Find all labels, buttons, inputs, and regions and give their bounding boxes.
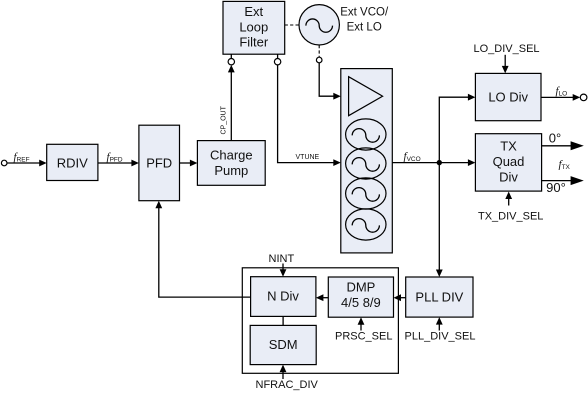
svg-text:DMP: DMP (346, 280, 375, 295)
wire TX output 90deg (542, 180, 571, 182)
wire LO_DIV_SEL down (504, 55, 506, 67)
svg-text:LO Div: LO Div (488, 90, 528, 105)
wire PLL DIV to DMP (401, 297, 406, 299)
wire fVCO to TX Quad Div (392, 162, 468, 164)
stem N Div to SDM (282, 316, 284, 325)
svg-text:TX_DIV_SEL: TX_DIV_SEL (478, 210, 543, 222)
arrowhead NFRAC_DIV into SDM (280, 365, 287, 373)
wire NINT down (282, 264, 284, 271)
terminal circle fLO output (580, 94, 587, 101)
arrowhead into N Div right (316, 294, 324, 301)
arrowhead TX 90deg (571, 176, 584, 185)
svg-text:Div: Div (499, 169, 518, 184)
terminal circle loop filter left pin (228, 59, 234, 65)
svg-text:PRSC_SEL: PRSC_SEL (335, 331, 392, 343)
dashed stem ext vco down (318, 45, 320, 57)
block TX Quad Div (475, 134, 541, 191)
svg-text:Ext VCO/: Ext VCO/ (340, 6, 389, 18)
wire PRSC_SEL up (360, 324, 362, 330)
arrowhead into PLL DIV (436, 270, 443, 278)
wire PFD to Charge Pump (180, 162, 191, 164)
arrowhead LO_DIV_SEL (502, 66, 509, 74)
svg-text:CP_OUT: CP_OUT (221, 105, 228, 134)
svg-text:Loop: Loop (239, 19, 268, 34)
wire TX output 0deg (542, 145, 571, 147)
vco oscillator stage 1 outline and sine (346, 119, 386, 150)
svg-text:Charge: Charge (210, 148, 253, 163)
wire fLO output (541, 96, 573, 98)
arrowhead feedback into PFD (155, 201, 162, 209)
svg-text:Quad: Quad (493, 154, 525, 169)
block PFD (139, 125, 180, 201)
svg-text:RDIV: RDIV (57, 155, 88, 170)
arrowhead into LO Div (468, 94, 476, 101)
svg-text:SDM: SDM (269, 337, 298, 352)
block Ext Loop Filter (223, 1, 285, 54)
wire branch up to LO Div (439, 97, 468, 162)
arrowhead PLL_DIV_SEL into PLL DIV (436, 317, 443, 325)
svg-text:NINT: NINT (269, 253, 295, 265)
arrowhead into DMP right (394, 294, 402, 301)
arrowhead into TX Quad Div (468, 159, 476, 166)
ext vco circle U1 (299, 5, 339, 45)
terminal circle ext vco pin (316, 57, 322, 63)
wire DMP to N Div (323, 297, 328, 299)
svg-text:Ext: Ext (244, 4, 263, 19)
wire feedback N Div to PFD (159, 208, 251, 298)
arrowhead into Charge Pump (190, 160, 198, 167)
wire VTUNE from loop filter right pin (278, 65, 334, 163)
input terminal circle (1, 160, 7, 166)
svg-text:PLL DIV: PLL DIV (415, 290, 463, 305)
outer box fractional divider (242, 268, 398, 374)
wire PLL_DIV_SEL up (438, 324, 440, 330)
svg-text:0°: 0° (549, 130, 561, 145)
svg-text:LO_DIV_SEL: LO_DIV_SEL (474, 43, 540, 55)
wire ext vco into VCO buffer (319, 63, 334, 96)
arrowhead into RDIV (39, 160, 47, 167)
vco oscillator stage 3 outline and sine (346, 178, 386, 209)
vco oscillator stage 4 body (346, 209, 386, 240)
block SDM (250, 325, 316, 364)
svg-text:NFRAC_DIV: NFRAC_DIV (256, 379, 319, 391)
svg-text:PLL_DIV_SEL: PLL_DIV_SEL (405, 331, 476, 343)
svg-text:90°: 90° (546, 180, 566, 195)
wire CP_OUT up to loop filter (230, 72, 232, 141)
wire RDIV to PFD (98, 162, 132, 164)
arrowhead fLO (573, 94, 581, 101)
block PLL DIV (406, 277, 473, 317)
svg-text:TX: TX (500, 138, 517, 153)
svg-text:VTUNE: VTUNE (296, 154, 320, 161)
wire TX_DIV_SEL up (508, 198, 510, 205)
stem loop filter right pin (277, 54, 279, 58)
arrowhead into PFD (131, 160, 139, 167)
arrowhead TX 0deg (571, 141, 584, 150)
stem loop filter left pin (230, 54, 232, 58)
svg-text:N Div: N Div (267, 289, 299, 304)
svg-text:Ext LO: Ext LO (347, 22, 382, 34)
label Ext VCO / Ext LO (340, 6, 389, 33)
wire fREF input (7, 162, 39, 164)
junction node fVCO (437, 160, 442, 165)
svg-text:Filter: Filter (239, 35, 269, 50)
block VCO (341, 69, 393, 253)
block LO Div (475, 73, 541, 120)
wire NFRAC_DIV up (282, 372, 284, 379)
terminal circle loop filter right pin (274, 59, 280, 65)
arrowhead PRSC_SEL into DMP (358, 317, 365, 325)
block RDIV (47, 144, 98, 180)
vco oscillator stage 1 body (346, 119, 386, 150)
dashed wire loop filter to ext vco (285, 24, 299, 26)
block Charge Pump (197, 141, 265, 186)
vco buffer triangle (349, 77, 383, 116)
vco oscillator stage 2 body (346, 148, 386, 179)
svg-text:Pump: Pump (214, 163, 248, 178)
arrowhead CP_OUT up (228, 65, 235, 73)
arrowhead NINT into N Div (280, 269, 287, 277)
svg-text:4/5 8/9: 4/5 8/9 (341, 295, 381, 310)
vco oscillator stage 2 outline and sine (346, 148, 386, 179)
arrowhead TX_DIV_SEL (505, 192, 512, 200)
vco oscillator stage 3 body (346, 178, 386, 209)
block DMP 4/5 8/9 (328, 277, 393, 317)
vco oscillator stage 4 outline and sine (346, 209, 386, 240)
arrowhead into VCO buffer (333, 93, 341, 100)
svg-text:PFD: PFD (146, 156, 172, 171)
wire branch down to PLL DIV (438, 163, 440, 271)
block N Div (251, 277, 316, 317)
arrowhead VTUNE into VCO (333, 159, 341, 166)
